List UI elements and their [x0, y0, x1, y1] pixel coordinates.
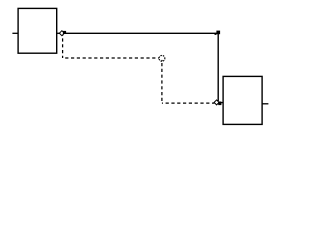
handle: small square at connector corner — [215, 33, 217, 35]
wire: box B1 left pin — [12, 32, 18, 34]
handle: dashed circle handle on ghost wire — [159, 55, 165, 61]
handle: filled square at box B1 right pin (connected endpoint) — [63, 31, 66, 34]
wire: dashed ghost horizontal to box2 pin — [162, 102, 215, 104]
wire: solid connector horizontal segment — [62, 32, 217, 34]
wire: solid connector vertical segment — [217, 32, 219, 102]
wire: dashed ghost vertical from box1 pin down — [62, 33, 64, 58]
wire: box B1 right pin — [57, 32, 62, 34]
wire: box B2 right pin — [262, 103, 268, 105]
wire: dashed ghost vertical from handle circle down — [161, 63, 163, 103]
connection point: diamond at box B1 right pin — [59, 31, 64, 36]
handle: large square at connector corner — [216, 31, 220, 35]
connection point: diamond at box B2 left pin — [214, 100, 219, 105]
wire: ghost dash tick inside handle circle — [161, 60, 163, 61]
handle: filled square at box B2 left pin (connected endpoint) — [218, 102, 221, 106]
wire: box B2 left pin — [219, 102, 223, 104]
box B2 — [223, 76, 262, 124]
wire: dashed ghost horizontal to handle circle — [63, 57, 159, 59]
box B1 — [18, 8, 57, 53]
